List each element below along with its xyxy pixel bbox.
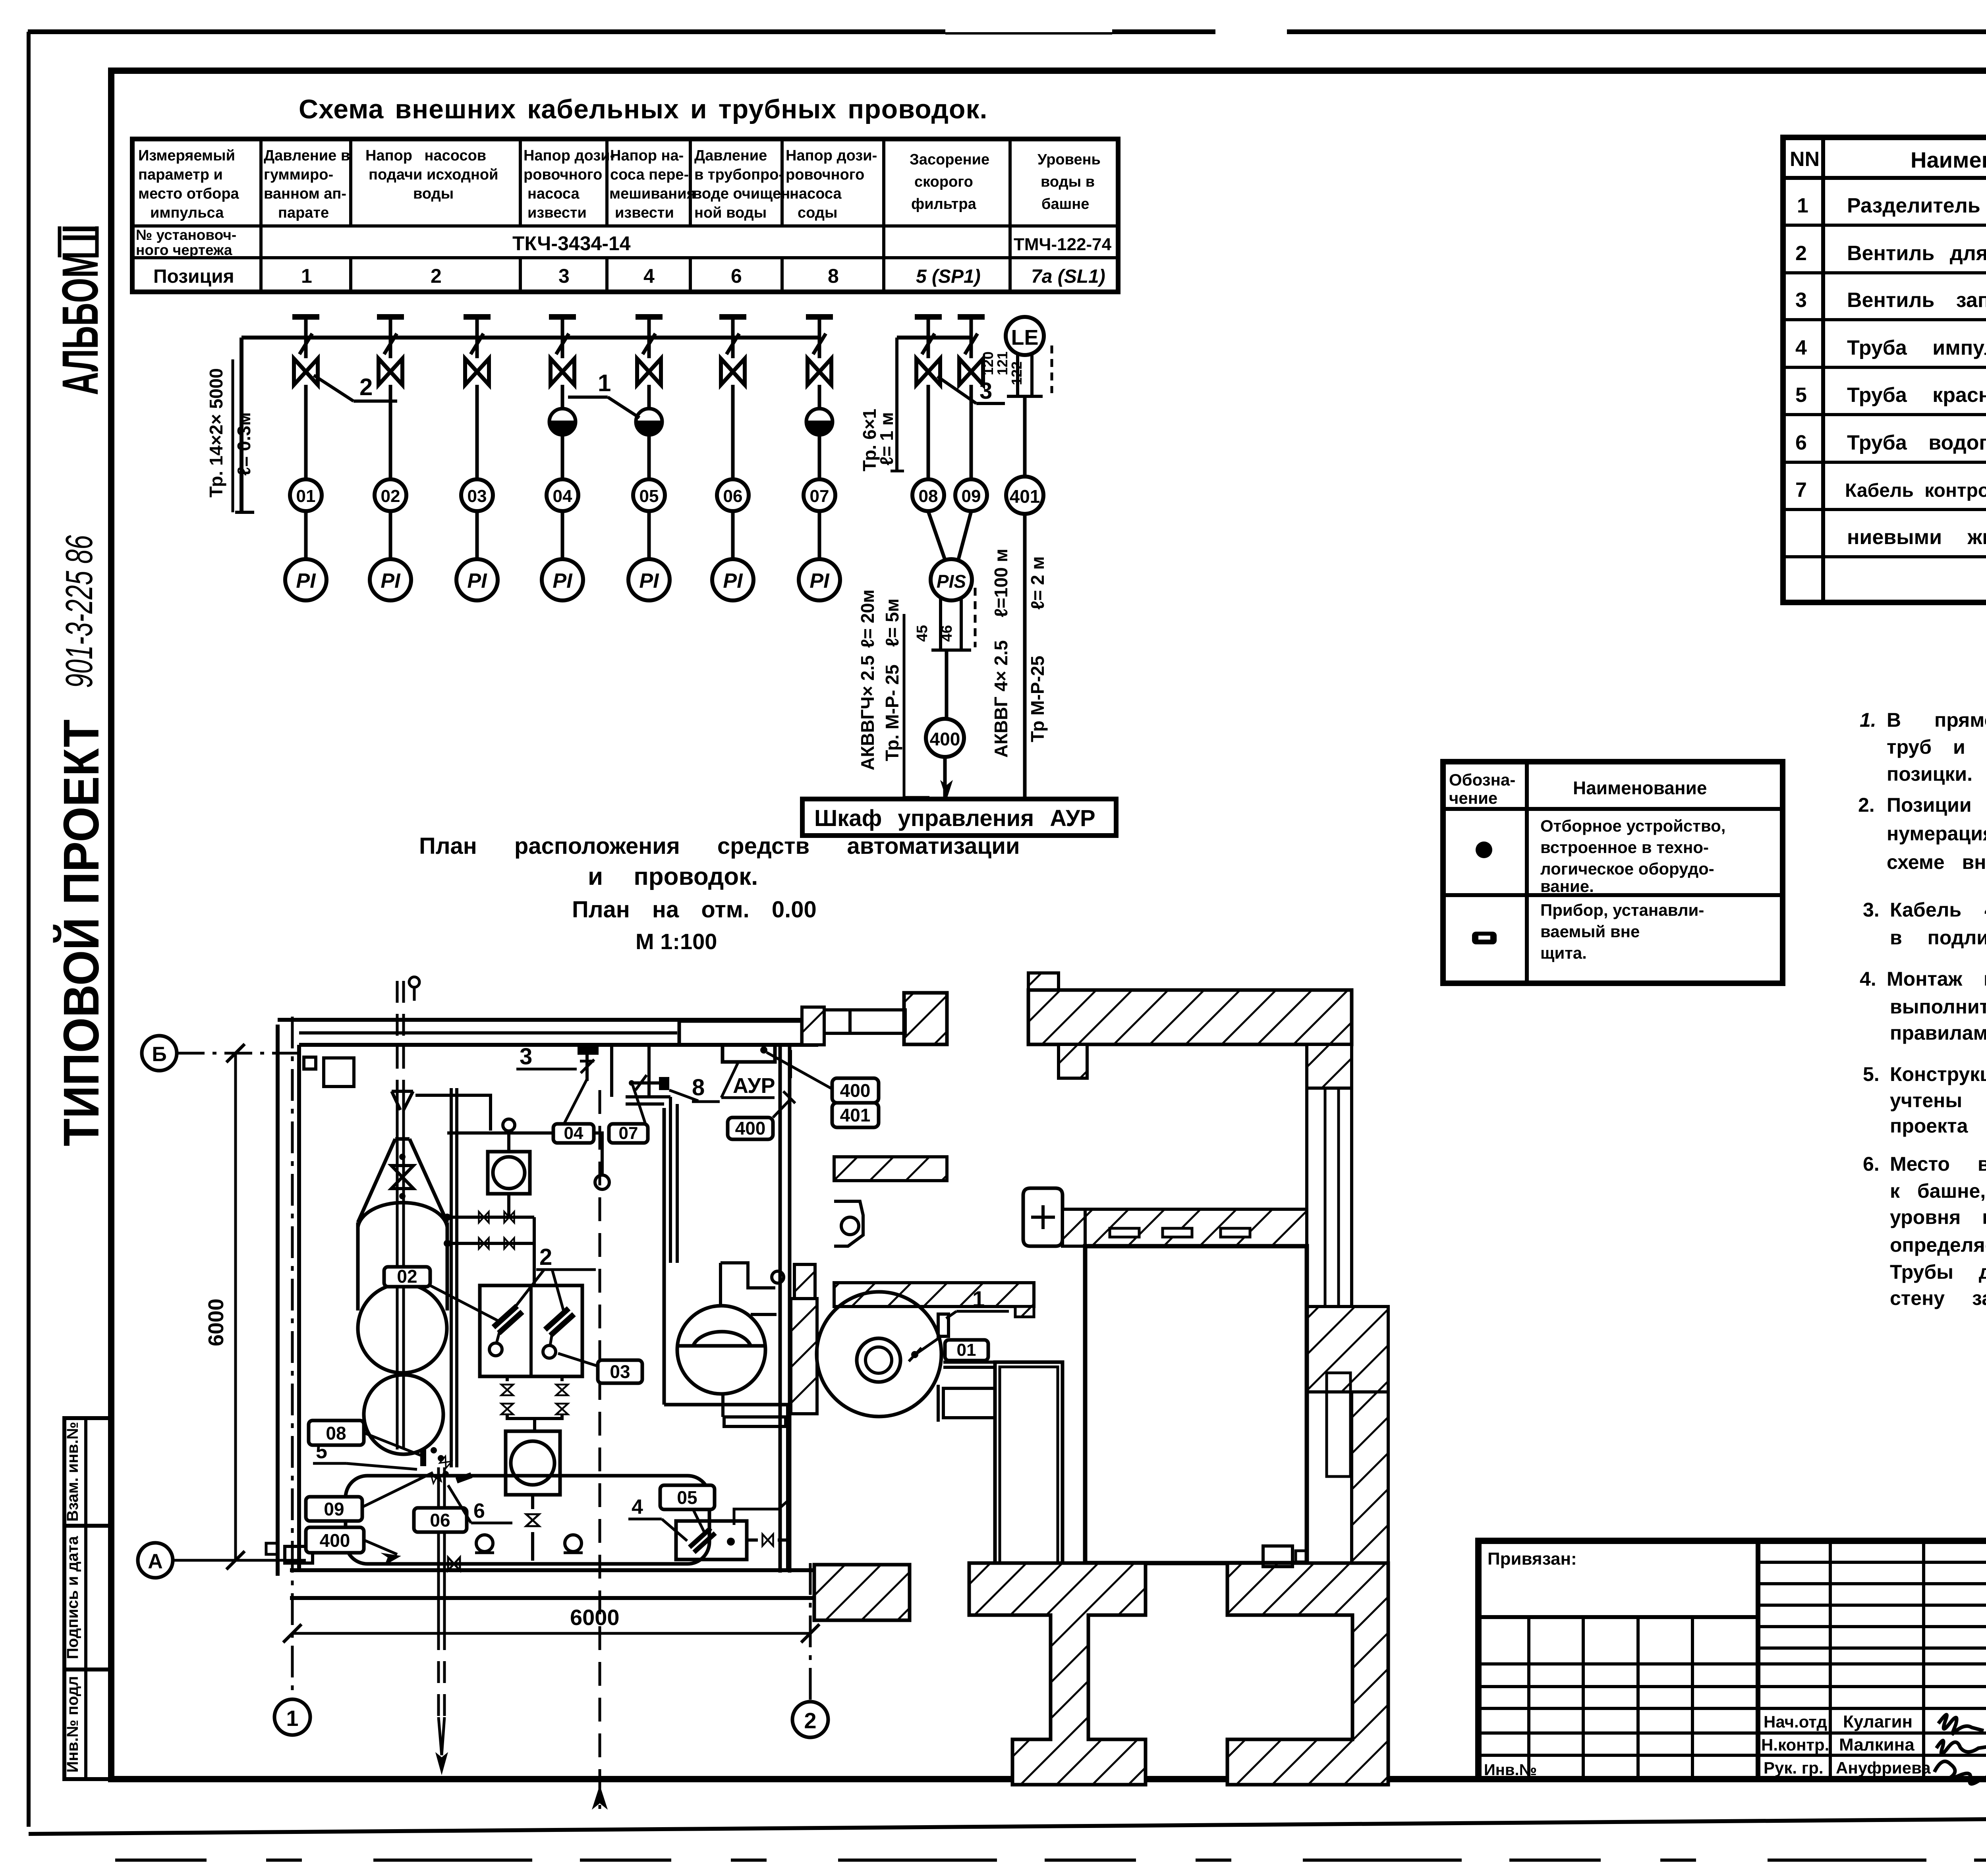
svg-text:Монтаж приборов и сред: Монтаж приборов и средств автоматизации xyxy=(1887,968,1986,990)
svg-text:ТИПОВОЙ ПРОЕКТ: ТИПОВОЙ ПРОЕКТ xyxy=(53,720,109,1146)
svg-text:Напор дози-: Напор дози- xyxy=(524,147,615,164)
svg-text:к башне, в которой установл: к башне, в которой установлен датчик xyxy=(1890,1180,1986,1202)
svg-text:4: 4 xyxy=(643,265,655,287)
svg-text:5: 5 xyxy=(316,1440,327,1463)
svg-text:А: А xyxy=(148,1550,163,1573)
svg-text:АКВВГЧ× 2.5: АКВВГЧ× 2.5 xyxy=(857,655,878,770)
LE instrument xyxy=(1006,317,1044,355)
svg-text:3: 3 xyxy=(979,378,992,404)
svg-text:в подливке пола.: в подливке пола. xyxy=(1890,926,1986,949)
svg-text:Тр М-Р-25: Тр М-Р-25 xyxy=(1027,656,1048,742)
400 circle xyxy=(926,719,964,757)
svg-text:400: 400 xyxy=(930,729,960,749)
svg-text:Напор на-: Напор на- xyxy=(610,147,684,164)
bus line xyxy=(241,336,819,340)
svg-text:5: 5 xyxy=(1795,384,1807,407)
svg-text:импульса: импульса xyxy=(150,205,224,221)
svg-text:400: 400 xyxy=(840,1080,871,1101)
svg-text:2: 2 xyxy=(1795,242,1807,265)
svg-text:Давление в: Давление в xyxy=(264,147,350,164)
svg-text:02: 02 xyxy=(397,1266,417,1287)
svg-text:Напор насосов: Напор насосов xyxy=(365,147,486,164)
wall W1 xyxy=(779,1045,782,1573)
svg-text:4: 4 xyxy=(632,1496,643,1519)
duct from wall xyxy=(626,1095,670,1098)
svg-text:извести: извести xyxy=(615,205,674,221)
svg-text:Наименование: Наименование xyxy=(1573,778,1707,798)
svg-text:ℓ= 20м: ℓ= 20м xyxy=(857,589,878,648)
bottom wall band xyxy=(290,1568,814,1572)
svg-text:1: 1 xyxy=(301,265,312,287)
svg-text:ТКЧ-3434-14: ТКЧ-3434-14 xyxy=(512,232,631,255)
svg-text:логическое оборудо-: логическое оборудо- xyxy=(1540,859,1714,878)
svg-text:06: 06 xyxy=(723,486,743,506)
svg-text:Измеряемый: Измеряемый xyxy=(138,147,235,164)
svg-text:PI: PI xyxy=(639,569,659,593)
02 label box xyxy=(384,1267,430,1287)
svg-text:нумерация кабелей и труб: нумерация кабелей и труб соответствует xyxy=(1887,822,1986,845)
svg-text:Кабель контрольный с алюми-: Кабель контрольный с алюми- xyxy=(1845,480,1986,501)
svg-text:PI: PI xyxy=(809,569,830,593)
svg-text:чение: чение xyxy=(1449,789,1497,807)
svg-text:ной воды: ной воды xyxy=(694,205,767,221)
svg-text:1: 1 xyxy=(598,370,611,396)
svg-text:8: 8 xyxy=(828,265,839,287)
400 single box xyxy=(728,1117,773,1139)
400/401 boxes xyxy=(832,1078,879,1103)
svg-text:параметр и: параметр и xyxy=(138,166,223,183)
svg-text:3: 3 xyxy=(520,1044,532,1069)
svg-text:2: 2 xyxy=(539,1244,552,1270)
8 instrument xyxy=(659,1077,669,1090)
svg-text:ℓ= 1 м: ℓ= 1 м xyxy=(876,412,897,466)
svg-text:05: 05 xyxy=(677,1487,697,1508)
svg-text:121: 121 xyxy=(994,351,1010,375)
svg-text:45: 45 xyxy=(914,625,931,642)
svg-text:1: 1 xyxy=(286,1706,298,1731)
svg-text:План расположения средств: План расположения средств автоматизации xyxy=(419,833,1020,859)
svg-text:PI: PI xyxy=(467,569,487,593)
svg-text:уровня поз. 7а, не показа: уровня поз. 7а, не показано , так как он… xyxy=(1890,1206,1986,1228)
svg-text:05: 05 xyxy=(639,486,659,506)
line to pump circle tap xyxy=(447,1133,602,1175)
svg-text:насоса: насоса xyxy=(527,185,580,202)
svg-text:Н.контр.: Н.контр. xyxy=(1761,1735,1829,1754)
svg-text:401: 401 xyxy=(840,1105,871,1125)
svg-text:место отбора: место отбора xyxy=(138,185,240,202)
blower pump xyxy=(817,1292,941,1417)
svg-text:Рук. гр.: Рук. гр. xyxy=(1764,1758,1824,1777)
svg-text:башне: башне xyxy=(1041,196,1089,212)
column 04 xyxy=(549,314,576,338)
401 circle xyxy=(1006,477,1043,514)
svg-text:Конструкции для крепления к: Конструкции для крепления кабелей 400 и … xyxy=(1890,1063,1986,1085)
cable 400 vertical along wall xyxy=(789,1050,792,1078)
svg-text:мешивания: мешивания xyxy=(609,185,695,202)
svg-text:Подпись и дата: Подпись и дата xyxy=(64,1536,81,1659)
valve stacks below chamber xyxy=(506,1376,509,1381)
svg-text:01: 01 xyxy=(957,1340,976,1360)
valve on pipe xyxy=(399,1154,406,1160)
svg-text:насоса: насоса xyxy=(790,185,842,202)
leader 1 xyxy=(568,396,608,399)
svg-text:Вентиль запорный: Вентиль запорный xyxy=(1847,289,1986,312)
svg-text:Малкина: Малкина xyxy=(1839,1735,1915,1754)
svg-text:ℓ=100 м: ℓ=100 м xyxy=(991,549,1011,618)
svg-text:Шкаф управления АУР: Шкаф управления АУР xyxy=(814,805,1095,831)
pipes near top wall xyxy=(610,1047,613,1097)
svg-text:Инв.№: Инв.№ xyxy=(1484,1761,1537,1779)
svg-text:2: 2 xyxy=(431,265,442,287)
svg-text:План на отм. 0.00: План на отм. 0.00 xyxy=(572,897,817,923)
svg-text:воды в: воды в xyxy=(1041,174,1095,190)
svg-text:в трубопро-: в трубопро- xyxy=(694,166,784,183)
svg-text:учтены в электротехническо: учтены в электротехнической части xyxy=(1890,1089,1986,1112)
svg-text:гуммиро-: гуммиро- xyxy=(264,166,333,183)
svg-text:Ануфриева: Ануфриева xyxy=(1836,1758,1931,1777)
svg-text:Взам. инв.№: Взам. инв.№ xyxy=(64,1422,81,1521)
svg-text:03: 03 xyxy=(468,486,487,506)
svg-text:401: 401 xyxy=(1010,486,1040,507)
stamp cells bottom left xyxy=(64,1418,111,1779)
400 label xyxy=(306,1527,364,1553)
small pump square upper xyxy=(503,1119,515,1131)
svg-text:6: 6 xyxy=(731,265,742,287)
svg-text:скорого: скорого xyxy=(914,174,973,190)
svg-text:06: 06 xyxy=(430,1510,450,1531)
svg-text:LE: LE xyxy=(1011,326,1038,349)
svg-text:PI: PI xyxy=(553,569,573,593)
02/03 chamber xyxy=(480,1285,582,1376)
svg-text:воды: воды xyxy=(413,185,454,202)
svg-text:выполнить согласно строи: выполнить согласно строительным нормам и xyxy=(1890,996,1986,1018)
svg-text:PI: PI xyxy=(381,569,401,593)
svg-text:ровочного: ровочного xyxy=(524,166,602,183)
svg-text:ℓ= 2 м: ℓ= 2 м xyxy=(1027,556,1048,610)
svg-text:6000: 6000 xyxy=(570,1605,620,1630)
svg-text:Прибор, устанавли-: Прибор, устанавли- xyxy=(1540,901,1704,919)
leader 2 xyxy=(314,375,354,401)
column 07 xyxy=(806,314,833,338)
svg-text:5 (SP1): 5 (SP1) xyxy=(916,266,981,287)
svg-text:46: 46 xyxy=(939,625,955,642)
column 06 xyxy=(719,314,746,338)
svg-text:ного чертежа: ного чертежа xyxy=(136,242,232,258)
svg-text:Б: Б xyxy=(152,1043,166,1066)
svg-text:соды: соды xyxy=(798,205,837,221)
svg-text:08: 08 xyxy=(326,1423,346,1444)
wall pier left of pump xyxy=(791,1299,817,1414)
svg-text:АУР: АУР xyxy=(733,1074,775,1098)
svg-text:соса пере-: соса пере- xyxy=(610,166,689,183)
svg-text:Нач.отд: Нач.отд xyxy=(1764,1712,1827,1731)
svg-text:позицки.: позицки. xyxy=(1887,763,1972,785)
svg-text:02: 02 xyxy=(381,486,400,506)
vertical pipe dashed through tank xyxy=(396,981,399,1090)
svg-text:встроенное в техно-: встроенное в техно- xyxy=(1540,838,1709,857)
tank cone and body xyxy=(358,1139,447,1222)
svg-text:ℓ= 0.3м: ℓ= 0.3м xyxy=(234,412,254,476)
5/6/08/09 cluster xyxy=(420,1449,426,1466)
svg-text:Кулагин: Кулагин xyxy=(1843,1712,1913,1731)
svg-text:Место выхода кабеля 401: Место выхода кабеля 401 от щита АУР xyxy=(1890,1153,1986,1175)
08 label xyxy=(309,1421,364,1445)
svg-text:№ установоч-: № установоч- xyxy=(136,227,236,243)
svg-text:ровочного: ровочного xyxy=(786,166,864,183)
funnel xyxy=(392,1090,413,1093)
svg-text:вание.: вание. xyxy=(1540,877,1594,896)
svg-text:3.: 3. xyxy=(1863,899,1880,921)
svg-text:6000: 6000 xyxy=(204,1299,228,1346)
svg-text:1.: 1. xyxy=(1860,709,1876,731)
svg-text:08: 08 xyxy=(919,486,938,506)
svg-text:04: 04 xyxy=(564,1123,583,1143)
svg-text:6: 6 xyxy=(1795,431,1807,454)
svg-text:2: 2 xyxy=(359,374,373,400)
svg-text:4: 4 xyxy=(1795,336,1807,359)
svg-text:АКВВГ 4× 2.5: АКВВГ 4× 2.5 xyxy=(991,640,1011,758)
right wall column xyxy=(1307,1044,1352,1088)
svg-text:Уровень: Уровень xyxy=(1037,151,1101,168)
svg-text:труб и кабелей, под полкой: труб и кабелей, под полкой линии- выноск… xyxy=(1887,736,1986,758)
svg-text:Тр. М-Р- 25: Тр. М-Р- 25 xyxy=(882,664,902,761)
svg-text:1: 1 xyxy=(1797,194,1808,217)
right group 08 09 bus xyxy=(897,336,971,340)
blower ducts xyxy=(943,1361,995,1364)
svg-text:09: 09 xyxy=(324,1499,344,1519)
column 05 xyxy=(636,314,663,338)
svg-text:В прямоугольниках указана н: В прямоугольниках указана нумерация xyxy=(1887,709,1986,731)
svg-text:щита.: щита. xyxy=(1540,944,1587,962)
broken scan line at very bottom xyxy=(115,1859,1986,1862)
svg-text:Давление: Давление xyxy=(694,147,767,164)
svg-text:и проводок.: и проводок. xyxy=(588,863,758,890)
column 09 xyxy=(958,314,985,338)
column 08 xyxy=(915,314,942,338)
svg-text:07: 07 xyxy=(810,486,829,506)
svg-text:Трубы для проводки кабел: Трубы для проводки кабелей сквозь xyxy=(1890,1261,1986,1283)
svg-text:PI: PI xyxy=(296,569,316,593)
left wall xyxy=(276,1025,280,1576)
svg-text:PIS: PIS xyxy=(937,571,966,592)
lower right room xyxy=(1085,1246,1307,1563)
05/4 instruments right xyxy=(676,1521,747,1559)
04 07 label boxes xyxy=(553,1124,594,1143)
floor channel loop xyxy=(346,1476,709,1564)
svg-text:7: 7 xyxy=(1795,479,1807,502)
grid axis circles and dims xyxy=(142,1036,177,1071)
svg-text:Труба импульсная: Труба импульсная xyxy=(1847,336,1986,359)
right building walls xyxy=(904,993,947,1044)
svg-text:01: 01 xyxy=(296,486,316,506)
svg-text:определяется при привязке: определяется при привязке проекта. xyxy=(1890,1234,1986,1256)
3 valve instrument xyxy=(578,1046,599,1055)
svg-text:400: 400 xyxy=(320,1530,350,1551)
cabinet box xyxy=(802,799,1116,836)
svg-text:2.: 2. xyxy=(1858,794,1875,816)
outer border left xyxy=(27,32,31,1827)
svg-text:7а (SL1): 7а (SL1) xyxy=(1031,266,1105,287)
svg-text:Инв.№ подл: Инв.№ подл xyxy=(64,1676,81,1772)
svg-text:6: 6 xyxy=(473,1500,485,1523)
svg-text:ванном ап-: ванном ап- xyxy=(264,185,346,202)
twin pipe down left xyxy=(450,1088,453,1467)
svg-text:07: 07 xyxy=(619,1123,638,1143)
svg-text:NN: NN xyxy=(1790,148,1820,171)
PIS branch below 08/09 xyxy=(928,511,945,561)
svg-text:09: 09 xyxy=(962,486,981,506)
svg-text:3: 3 xyxy=(558,265,570,287)
06 label xyxy=(414,1508,467,1532)
AUR cabinet xyxy=(679,1021,802,1045)
svg-text:PI: PI xyxy=(723,569,743,593)
svg-text:фильтра: фильтра xyxy=(911,196,977,212)
column 01 xyxy=(292,314,319,338)
svg-text:2: 2 xyxy=(804,1708,816,1733)
svg-text:подачи исходной: подачи исходной xyxy=(369,166,498,183)
svg-text:Привязан:: Привязан: xyxy=(1488,1549,1577,1569)
svg-text:Отборное устройство,: Отборное устройство, xyxy=(1540,816,1725,835)
svg-text:воде очищен-: воде очищен- xyxy=(693,185,795,202)
left: privyazan box xyxy=(1478,1615,1758,1619)
svg-text:04: 04 xyxy=(553,486,572,506)
svg-text:120: 120 xyxy=(980,351,996,375)
svg-text:ваемый вне: ваемый вне xyxy=(1540,922,1640,941)
svg-text:схеме внешних кабельных и: схеме внешних кабельных и трубных провод… xyxy=(1887,851,1986,873)
svg-text:901-3-225 86: 901-3-225 86 xyxy=(58,535,100,688)
svg-text:Наименование: Наименование xyxy=(1911,147,1986,172)
svg-text:6.: 6. xyxy=(1863,1153,1880,1175)
svg-text:правилам СН и П Ⅲ-34-74 Гос: правилам СН и П Ⅲ-34-74 Госстроя СССР. xyxy=(1890,1022,1986,1044)
svg-text:Тр. 14×2× 5000: Тр. 14×2× 5000 xyxy=(206,368,226,498)
svg-text:ниевыми жилами.: ниевыми жилами. xyxy=(1847,526,1986,549)
svg-text:М 1:100: М 1:100 xyxy=(636,929,717,954)
svg-text:5.: 5. xyxy=(1863,1063,1880,1085)
svg-text:Разделитель мембранный: Разделитель мембранный xyxy=(1847,194,1986,217)
svg-text:3: 3 xyxy=(1795,289,1807,312)
center dashed axis with up arrow xyxy=(599,1090,601,1809)
svg-text:Обозна-: Обозна- xyxy=(1449,770,1515,789)
top wall band xyxy=(278,1018,818,1022)
svg-text:122: 122 xyxy=(1008,361,1025,385)
svg-text:Позиции монтируемых прибор: Позиции монтируемых приборов, а также xyxy=(1887,794,1986,816)
svg-text:стену заложены в осях.: стену заложены в осях. xyxy=(1890,1287,1986,1309)
leader 3 xyxy=(937,376,976,403)
chord tank right xyxy=(677,1306,765,1394)
piers xyxy=(969,1563,1146,1785)
svg-text:4.: 4. xyxy=(1860,968,1876,990)
platform outline xyxy=(663,1108,666,1405)
svg-text:8: 8 xyxy=(692,1075,705,1100)
svg-text:ТМЧ-122-74: ТМЧ-122-74 xyxy=(1014,235,1112,254)
svg-text:Кабель 400 проложить в: Кабель 400 проложить в трубе, заложенной xyxy=(1890,899,1986,921)
valve rows xyxy=(447,1216,534,1219)
outer border top xyxy=(28,29,1986,34)
03 label box xyxy=(598,1360,642,1383)
svg-text:400: 400 xyxy=(735,1118,766,1139)
svg-text:ℓ= 5м: ℓ= 5м xyxy=(882,598,902,647)
svg-text:Труба водогазопроводная: Труба водогазопроводная xyxy=(1847,431,1986,454)
svg-text:1: 1 xyxy=(972,1286,985,1311)
svg-text:Позиция: Позиция xyxy=(153,266,234,287)
middle grid xyxy=(1829,1541,1832,1779)
outer border bottom xyxy=(29,1815,1986,1834)
svg-text:Труба красномедная: Труба красномедная xyxy=(1847,384,1986,407)
pipe from funnel to pump xyxy=(415,1095,491,1131)
09 label xyxy=(306,1497,362,1521)
column 03 xyxy=(464,314,491,338)
svg-text:Вентиль для манометров: Вентиль для манометров xyxy=(1847,242,1986,265)
column 02 xyxy=(377,314,404,338)
svg-text:извести: извести xyxy=(527,205,587,221)
svg-text:Схема внешних кабельных и: Схема внешних кабельных и трубных провод… xyxy=(299,94,987,124)
svg-text:проекта ЭМ лист № 11.: проекта ЭМ лист № 11. xyxy=(1890,1115,1986,1137)
main pump square xyxy=(506,1431,560,1495)
svg-text:парате: парате xyxy=(278,205,329,221)
svg-text:03: 03 xyxy=(610,1361,630,1382)
svg-text:Напор дози-: Напор дози- xyxy=(786,147,877,164)
svg-text:Засорение: Засорение xyxy=(910,151,989,168)
